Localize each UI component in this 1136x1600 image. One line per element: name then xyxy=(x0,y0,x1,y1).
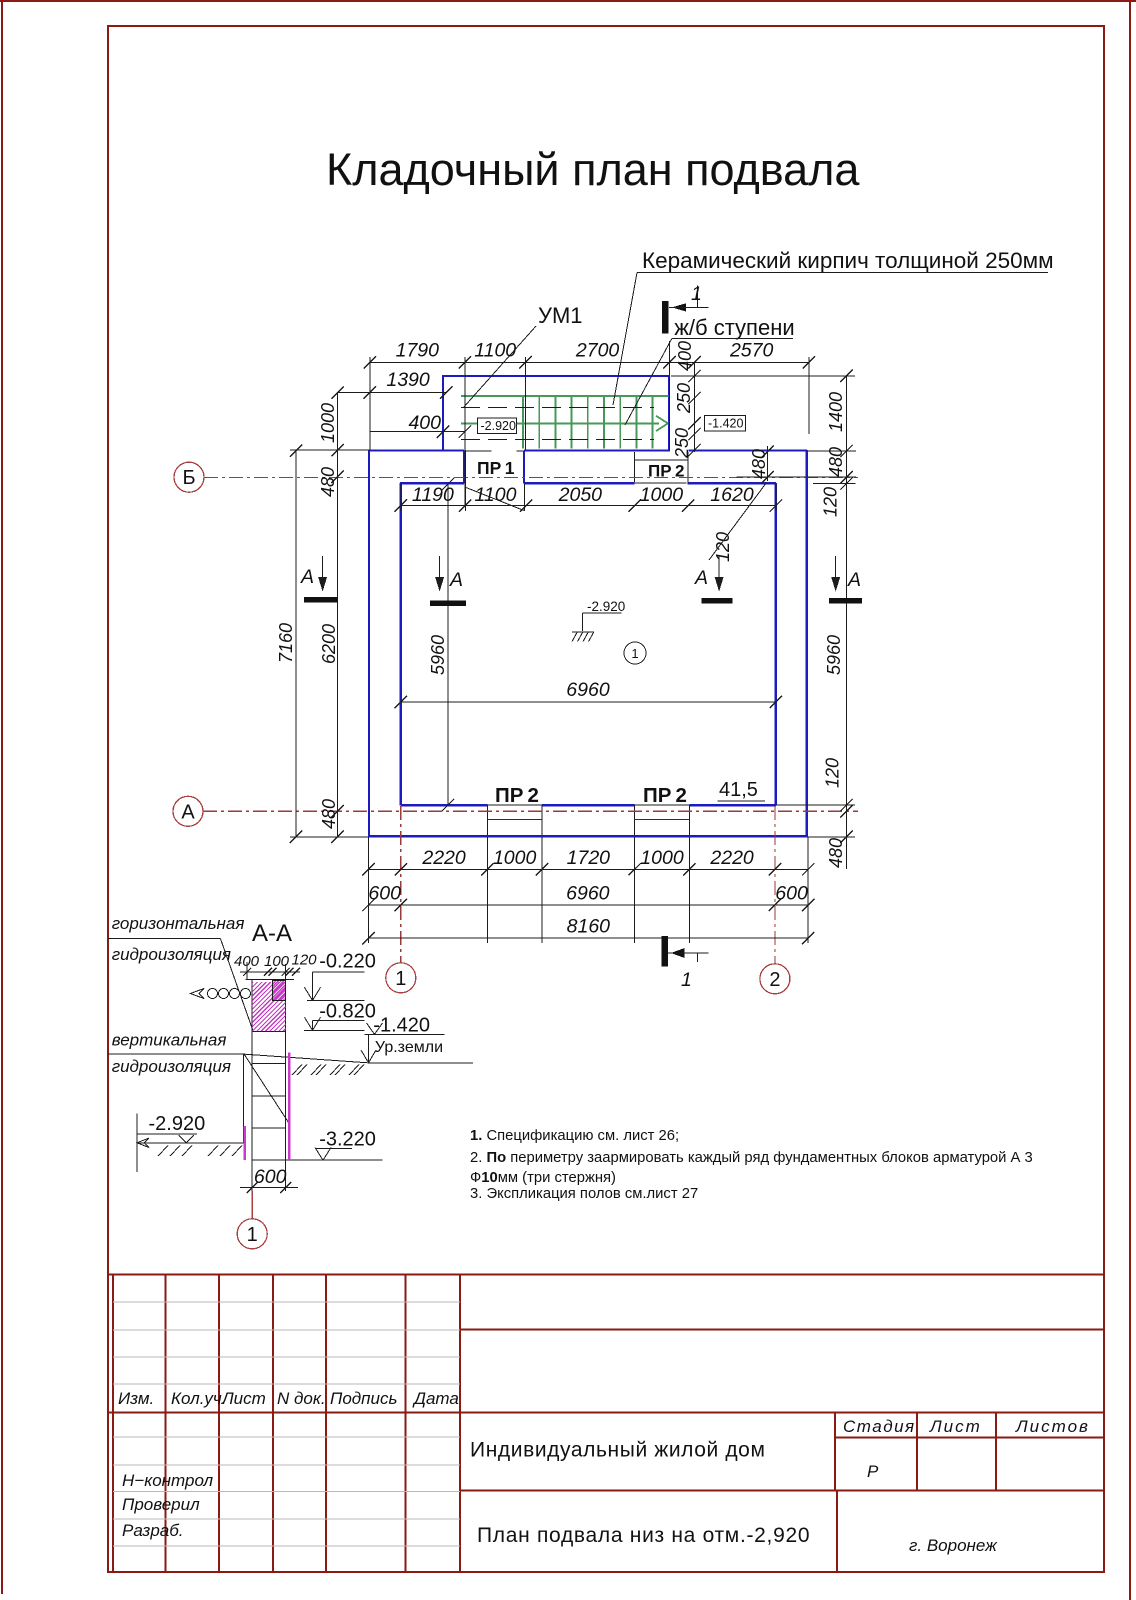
svg-text:-0.820: -0.820 xyxy=(319,1001,376,1023)
svg-text:5960: 5960 xyxy=(824,635,844,675)
svg-text:480: 480 xyxy=(826,838,846,868)
svg-text:А: А xyxy=(847,569,861,591)
svg-text:Б: Б xyxy=(182,467,195,489)
svg-text:Кладочный план подвала: Кладочный план подвала xyxy=(326,144,860,195)
svg-text:480: 480 xyxy=(318,467,338,497)
svg-text:6200: 6200 xyxy=(319,624,339,664)
svg-text:А: А xyxy=(300,566,314,588)
svg-text:1100: 1100 xyxy=(474,339,516,361)
svg-text:Ф10мм (три стержня): Ф10мм (три стержня) xyxy=(470,1170,616,1186)
svg-text:250: 250 xyxy=(672,428,692,459)
svg-text:8160: 8160 xyxy=(567,916,611,938)
svg-text:гидроизоляция: гидроизоляция xyxy=(112,945,231,964)
svg-text:-3.220: -3.220 xyxy=(319,1129,376,1151)
svg-text:120: 120 xyxy=(821,487,841,517)
svg-text:120: 120 xyxy=(292,952,318,969)
svg-text:ПР 1: ПР 1 xyxy=(477,458,515,478)
svg-text:А: А xyxy=(181,801,195,823)
svg-text:3. Экспликация полов см.лист 2: 3. Экспликация полов см.лист 27 xyxy=(470,1186,698,1202)
svg-text:120: 120 xyxy=(713,532,733,562)
svg-text:-0.220: -0.220 xyxy=(319,951,376,973)
svg-text:1790: 1790 xyxy=(396,339,440,361)
svg-text:гидроизоляция: гидроизоляция xyxy=(112,1057,231,1076)
svg-text:Н−контрол: Н−контрол xyxy=(122,1471,214,1490)
svg-text:1: 1 xyxy=(395,968,406,990)
svg-text:2. По периметру заармировать к: 2. По периметру заармировать каждый ряд … xyxy=(470,1150,1033,1166)
svg-text:Лист: Лист xyxy=(929,1417,982,1436)
svg-text:1. Спецификацию см. лист 26;: 1. Спецификацию см. лист 26; xyxy=(470,1128,679,1144)
svg-text:А: А xyxy=(694,567,708,589)
svg-text:2700: 2700 xyxy=(575,339,620,361)
svg-text:400: 400 xyxy=(675,341,695,371)
svg-text:600: 600 xyxy=(775,883,808,905)
svg-text:-2.920: -2.920 xyxy=(149,1113,206,1135)
svg-text:УМ1: УМ1 xyxy=(538,303,583,328)
svg-text:6960: 6960 xyxy=(566,883,610,905)
svg-text:600: 600 xyxy=(254,1166,287,1188)
svg-text:1000: 1000 xyxy=(640,847,684,869)
svg-text:Керамический кирпич толщиной 2: Керамический кирпич толщиной 250мм xyxy=(642,248,1054,273)
svg-text:120: 120 xyxy=(823,758,843,788)
svg-text:1720: 1720 xyxy=(567,847,611,869)
svg-text:-2.920: -2.920 xyxy=(481,419,516,433)
svg-text:-1.420: -1.420 xyxy=(708,417,743,431)
svg-text:1390: 1390 xyxy=(386,369,430,391)
svg-text:Проверил: Проверил xyxy=(122,1495,200,1514)
svg-text:Подпись: Подпись xyxy=(330,1389,397,1408)
svg-text:Кол.уч.: Кол.уч. xyxy=(171,1389,226,1408)
svg-text:2050: 2050 xyxy=(558,484,603,506)
svg-text:1620: 1620 xyxy=(710,484,754,506)
svg-text:-2.920: -2.920 xyxy=(587,599,625,614)
svg-text:Лист: Лист xyxy=(221,1389,266,1408)
svg-text:г. Воронеж: г. Воронеж xyxy=(909,1536,998,1555)
svg-text:1: 1 xyxy=(691,283,702,305)
svg-text:6960: 6960 xyxy=(566,679,610,701)
svg-text:Р: Р xyxy=(867,1462,879,1481)
svg-text:2570: 2570 xyxy=(729,339,774,361)
svg-text:А: А xyxy=(449,569,463,591)
svg-text:-1.420: -1.420 xyxy=(373,1015,430,1037)
svg-text:Разраб.: Разраб. xyxy=(122,1521,184,1540)
svg-text:Стадия: Стадия xyxy=(843,1417,916,1436)
svg-text:480: 480 xyxy=(319,799,339,829)
svg-text:1000: 1000 xyxy=(640,484,684,506)
svg-text:1000: 1000 xyxy=(318,403,338,443)
svg-text:горизонтальная: горизонтальная xyxy=(112,914,245,933)
svg-text:7160: 7160 xyxy=(276,623,296,663)
svg-text:А-А: А-А xyxy=(252,920,292,947)
svg-text:Ур.земли: Ур.земли xyxy=(375,1039,443,1056)
svg-text:вертикальная: вертикальная xyxy=(112,1031,227,1050)
svg-text:600: 600 xyxy=(368,883,401,905)
svg-text:ПР 2: ПР 2 xyxy=(495,784,539,807)
svg-text:N док.: N док. xyxy=(277,1389,326,1408)
svg-text:1: 1 xyxy=(681,969,692,991)
svg-text:480: 480 xyxy=(749,449,769,479)
svg-text:2220: 2220 xyxy=(421,847,466,869)
svg-text:Листов: Листов xyxy=(1015,1417,1090,1436)
svg-text:Дата: Дата xyxy=(412,1389,459,1408)
svg-text:5960: 5960 xyxy=(428,635,448,675)
svg-text:250: 250 xyxy=(674,383,694,414)
svg-text:1190: 1190 xyxy=(412,484,454,506)
svg-text:План подвала низ на отм.-2,92: План подвала низ на отм.-2,920 xyxy=(477,1524,810,1547)
svg-text:2: 2 xyxy=(769,969,780,991)
svg-text:480: 480 xyxy=(826,447,846,477)
svg-text:1100: 1100 xyxy=(475,484,517,506)
svg-text:41,5: 41,5 xyxy=(719,779,758,801)
svg-text:1: 1 xyxy=(631,646,638,661)
svg-text:400: 400 xyxy=(408,412,441,434)
svg-text:1000: 1000 xyxy=(493,847,537,869)
svg-text:Индивидуальный жилой дом: Индивидуальный жилой дом xyxy=(470,1439,766,1462)
svg-text:ж/б ступени: ж/б ступени xyxy=(674,315,794,340)
svg-text:1400: 1400 xyxy=(826,392,846,432)
svg-text:ПР 2: ПР 2 xyxy=(643,784,687,807)
svg-text:2220: 2220 xyxy=(709,847,754,869)
svg-text:Изм.: Изм. xyxy=(118,1389,154,1408)
svg-text:1: 1 xyxy=(247,1224,258,1246)
